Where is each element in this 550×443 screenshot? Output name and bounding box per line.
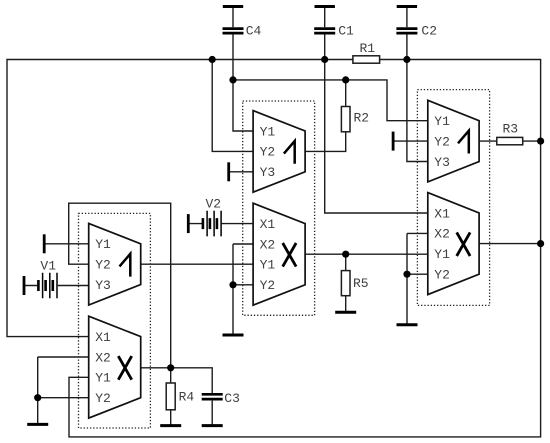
wire R2 bottom lead to output of op-amp U2: [305, 132, 346, 152]
wire right multiplier X2/Y2 ground drop: [406, 233, 408, 324]
svg-text:V2: V2: [206, 196, 222, 211]
svg-text:C2: C2: [421, 24, 437, 39]
junction node R5 top: [342, 251, 349, 258]
ground below left multiplier: [27, 423, 48, 426]
capacitor C1: [314, 7, 354, 39]
svg-text:Y2: Y2: [95, 258, 111, 273]
svg-text:C1: C1: [338, 24, 354, 39]
op-amp U3 (right gain block): [428, 100, 479, 182]
capacitor C2: [396, 7, 437, 39]
junction node right multiplier Y2: [403, 271, 410, 278]
multiplier U4 (center X block): [253, 203, 305, 305]
resistor R5: [341, 271, 368, 296]
svg-text:Y1: Y1: [260, 258, 276, 273]
wire bus1 left + left side drop + X1 input of left multiplier: [7, 60, 353, 337]
wire terminal to Y1 of op-amp U1: [44, 243, 88, 245]
svg-text:R3: R3: [503, 121, 519, 136]
junction node left multiplier Y2: [34, 394, 41, 401]
wire terminal to Y3 of op-amp U2: [229, 171, 253, 173]
wire U6 output to right rail: [479, 243, 540, 245]
wire C3 bottom lead to ground: [211, 401, 213, 426]
capacitor C3: [202, 391, 240, 406]
svg-text:X2: X2: [260, 237, 276, 252]
junction node center multiplier Y2: [229, 281, 236, 288]
svg-text:Y2: Y2: [434, 134, 450, 149]
ground below R4: [160, 424, 181, 427]
wire terminal to Y2 of op-amp U3: [393, 140, 428, 142]
junction node bus2/R2: [342, 76, 349, 83]
multiplier U6 (right X block): [428, 193, 479, 295]
wire bus1 drop to Y2 of op-amp U2: [212, 60, 253, 152]
wire left multiplier output to R4 node and C3: [141, 368, 213, 393]
junction node bus1/C1: [321, 56, 328, 63]
terminal on Y2 of op-amp U3: [392, 132, 395, 151]
svg-text:X1: X1: [434, 206, 450, 221]
svg-text:Y2: Y2: [95, 391, 111, 406]
junction node bus2/C4: [229, 76, 236, 83]
wire left multiplier X2 input: [38, 356, 89, 358]
resistor R2: [341, 107, 369, 132]
svg-text:Y3: Y3: [95, 278, 111, 293]
svg-text:C3: C3: [224, 391, 240, 406]
wire V1 leads to Y3 of op-amp U1: [24, 285, 89, 287]
resistor R4: [166, 383, 194, 410]
svg-text:X2: X2: [95, 350, 111, 365]
wire center multiplier Y2 branch: [233, 284, 253, 286]
terminal on Y3 of op-amp U2: [227, 162, 230, 181]
wire V2 leads to X1 of multiplier U4: [188, 223, 253, 225]
svg-text:Y1: Y1: [434, 114, 450, 129]
dotted group box right pair: [417, 90, 489, 306]
op-amp U2 (center gain block): [253, 111, 305, 193]
resistor R1: [353, 41, 380, 63]
wire left multiplier Y2 branch: [38, 397, 89, 399]
wire center multiplier X2 input: [233, 243, 253, 245]
junction node R4 top: [167, 364, 174, 371]
dotted group box center pair: [243, 101, 315, 315]
wire C1 lead down to X1 of multiplier U6: [325, 34, 428, 213]
multiplier U5 (left X block): [89, 316, 141, 418]
svg-text:Y1: Y1: [95, 371, 111, 386]
svg-text:R2: R2: [354, 110, 370, 125]
svg-text:Y2: Y2: [434, 268, 450, 283]
svg-text:R1: R1: [360, 41, 376, 56]
svg-text:Y2: Y2: [260, 145, 276, 160]
wire R4 bottom lead to ground: [170, 410, 172, 426]
wire bus1 right + right side drop + bottom rail + Y1 input of left multiplier: [69, 60, 541, 437]
wire R4 top lead: [170, 368, 172, 383]
wire R3 to right rail: [523, 140, 541, 142]
wire R2 top lead from bus2: [345, 80, 347, 107]
capacitor C4: [223, 7, 262, 39]
dotted group box left pair: [79, 213, 151, 428]
svg-text:Y1: Y1: [95, 237, 111, 252]
svg-text:V1: V1: [40, 259, 56, 274]
svg-text:Y1: Y1: [260, 124, 276, 139]
wire U3 output to R3: [479, 140, 497, 142]
wire left multiplier X2/Y2 ground drop: [37, 357, 39, 424]
ground below C3: [202, 424, 223, 427]
ground below right multiplier: [397, 323, 418, 326]
wire U4 output to Y1 of multiplier U6: [305, 253, 428, 255]
svg-text:C4: C4: [246, 24, 262, 39]
wire right multiplier Y2 branch: [407, 273, 428, 275]
battery V1: [24, 259, 57, 299]
wire bus2 to Y1 of op-amp U3: [233, 80, 428, 121]
svg-text:Y3: Y3: [260, 165, 276, 180]
wire R5 bottom lead to ground: [345, 296, 347, 313]
svg-text:X2: X2: [434, 227, 450, 242]
ground below center multiplier: [223, 334, 244, 337]
junction node R3 output on right rail: [537, 138, 544, 145]
op-amp U1 (left gain block): [89, 223, 141, 305]
svg-text:X1: X1: [95, 330, 111, 345]
wire C2 lead down to Y3 of op-amp U3: [407, 34, 428, 161]
svg-text:R4: R4: [179, 389, 195, 404]
wire bus2 drop to Y1 of op-amp U2: [233, 80, 253, 131]
svg-text:R5: R5: [353, 276, 369, 291]
battery V2: [188, 196, 221, 236]
wire R5 top lead: [345, 254, 347, 270]
junction node bus1/C2: [403, 56, 410, 63]
terminal on Y1 of op-amp U1: [43, 234, 46, 253]
svg-text:Y3: Y3: [434, 155, 450, 170]
svg-text:X1: X1: [260, 217, 276, 232]
resistor R3: [497, 121, 523, 144]
junction node bus1/Y2 drop: [209, 56, 216, 63]
wire feedback from Y2 of U1 up over to R4 node: [69, 203, 171, 368]
wire center multiplier X2/Y2 ground drop: [232, 244, 234, 335]
wire C4 lead down through bus1 to bus2: [232, 34, 234, 80]
svg-text:Y1: Y1: [434, 247, 450, 262]
wire right multiplier X2 input: [407, 232, 428, 234]
junction node U6 output on right rail: [537, 240, 544, 247]
svg-text:Y2: Y2: [260, 278, 276, 293]
wire output of op-amp U1 to Y1 of multiplier U4: [141, 263, 253, 265]
ground below R5: [335, 311, 356, 314]
